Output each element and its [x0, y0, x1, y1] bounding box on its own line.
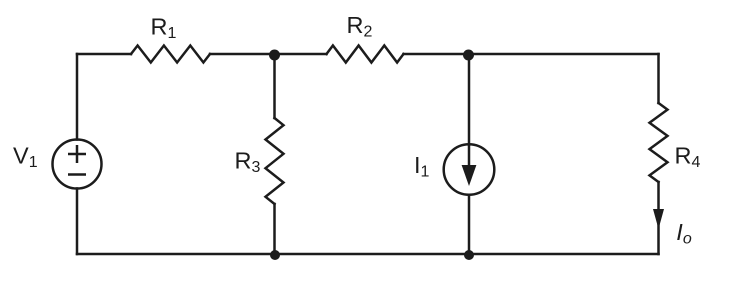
wire: R4 to bottom right corner: [657, 182, 660, 254]
svg-text:I1: I1: [414, 152, 430, 181]
resistor R2: [327, 46, 404, 63]
minus sign of V1: [68, 173, 86, 176]
wire: right vertical above R4: [657, 54, 660, 103]
bottom junction dot below R3: [270, 250, 280, 260]
resistor R4: [650, 103, 668, 182]
wire: I1 to bottom wire: [468, 195, 471, 254]
svg-text:V1: V1: [13, 142, 38, 171]
svg-text:R2: R2: [347, 12, 373, 41]
arrow shaft of I1: [468, 145, 471, 171]
svg-text:Io: Io: [676, 219, 692, 248]
wire: R2 to top right corner: [404, 53, 659, 56]
wire: node B down to I1: [468, 54, 471, 145]
arrowhead of Io current: [653, 209, 664, 229]
wire: top left horizontal V1 to R1: [77, 53, 131, 56]
current source I1: [444, 144, 495, 195]
wire: R3 to bottom wire: [273, 204, 276, 254]
wire: left vertical below V1: [76, 189, 79, 255]
svg-text:R4: R4: [675, 143, 701, 172]
node A junction dot: [269, 50, 280, 61]
svg-text:R1: R1: [151, 14, 177, 43]
resistor R3: [266, 118, 284, 204]
wire: R1 to node A: [210, 53, 327, 56]
plus sign of V1: [68, 153, 86, 156]
svg-text:R3: R3: [235, 148, 261, 177]
voltage source V1: [53, 140, 102, 189]
wire: node A down to R3: [273, 54, 276, 118]
arrowhead of I1: [462, 165, 477, 186]
bottom junction dot below I1: [464, 250, 474, 260]
resistor R1: [131, 46, 210, 63]
wire: left vertical above V1: [76, 54, 79, 140]
wire: bottom horizontal: [77, 253, 659, 256]
node B junction dot: [463, 50, 474, 61]
